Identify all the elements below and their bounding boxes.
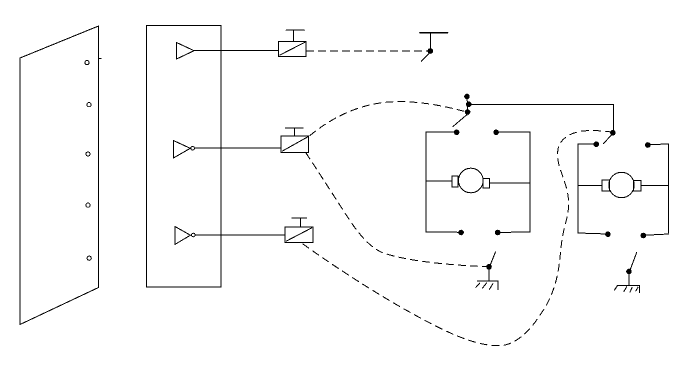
panel hole 5: [87, 256, 91, 260]
panel hole 1: [85, 61, 89, 65]
motor M2 frame left edge: [577, 144, 579, 233]
buffer A1: [176, 42, 194, 59]
motor M1 frame bottom-left segment: [426, 231, 461, 233]
switch S1: [420, 33, 448, 62]
motor M2 wire right: [641, 185, 669, 187]
wire A1 to valve V1: [194, 50, 278, 52]
inverter A3: [175, 227, 190, 245]
motor M1 frame left edge: [425, 132, 427, 232]
switch S4 lever: [491, 252, 496, 264]
solenoid valve V3: [285, 218, 313, 243]
switch S5 lever: [631, 252, 637, 269]
ground G1 lead: [488, 269, 490, 281]
switch S3 lever: [604, 135, 612, 143]
motor M1 frame right edge: [529, 132, 531, 232]
motor M1 frame top-left segment: [426, 131, 457, 133]
wire S2 to S3: [471, 104, 613, 130]
panel edge tick: [99, 58, 102, 60]
motor M2 frame bottom-left segment: [578, 233, 608, 234]
panel hole 4: [86, 203, 90, 207]
motor M2 frame top-left segment: [578, 143, 596, 145]
motor M2 bottom-left contact: [606, 232, 611, 237]
motor M2 brush left: [602, 180, 610, 191]
switch S4 contact: [487, 265, 492, 270]
motor M2 brush right: [634, 180, 641, 191]
motor M1 wire left: [426, 180, 452, 182]
motor M2 bottom-right contact: [641, 233, 646, 238]
panel hole 2: [87, 103, 91, 107]
switch S2 contact low: [465, 110, 470, 115]
motor M1 body: [459, 168, 484, 193]
motor M1 wire right: [490, 182, 530, 184]
motor M1 brush right: [483, 179, 489, 189]
dashed link V1 to switch S1: [307, 50, 428, 52]
motor M2 wire left: [578, 185, 602, 187]
ground G1: [476, 281, 498, 289]
motor M1 top-right contact: [494, 130, 499, 135]
motor M2 frame bottom-right segment: [643, 234, 668, 235]
panel hole 3: [86, 152, 90, 156]
solenoid valve V1: [279, 30, 307, 56]
control unit box: [146, 25, 221, 287]
motor M1 top-left contact: [454, 130, 459, 135]
motor M1 brush left: [452, 176, 458, 187]
motor M2 top-left contact: [594, 142, 599, 147]
switch S2 stem: [466, 95, 469, 116]
solenoid valve V2: [281, 128, 309, 153]
inverter A2: [173, 141, 190, 159]
switch S2 lever: [453, 115, 467, 127]
dashed link V3 to switch S3: [303, 131, 610, 346]
motor M1 frame bottom-right segment: [498, 231, 530, 234]
switch S2 contact top: [465, 94, 470, 99]
motor M1 bottom-right contact: [495, 230, 500, 235]
dashed link V2 to switch S4: [306, 153, 487, 267]
motor M2 frame right edge: [668, 144, 670, 233]
switch S2 contact mid: [466, 102, 471, 107]
inverter A3 bubble: [192, 233, 196, 237]
ground G2 lead: [628, 274, 630, 286]
panel (left parallelogram): [20, 26, 99, 325]
dashed link V2 to switch S2: [310, 102, 464, 136]
wire A3 to valve V3: [195, 234, 285, 236]
switch S5 contact: [627, 269, 632, 274]
motor M2 top-right contact: [646, 143, 651, 148]
switch S3 contact: [611, 130, 616, 135]
wire A2 to valve V2: [195, 147, 281, 149]
ground G2: [615, 286, 640, 293]
motor M2 body: [609, 172, 634, 197]
inverter A2 bubble: [191, 147, 195, 151]
motor M1 frame top-right segment: [496, 131, 530, 133]
motor M2 frame top-right segment: [648, 143, 669, 146]
motor M1 bottom-left contact: [459, 230, 464, 235]
